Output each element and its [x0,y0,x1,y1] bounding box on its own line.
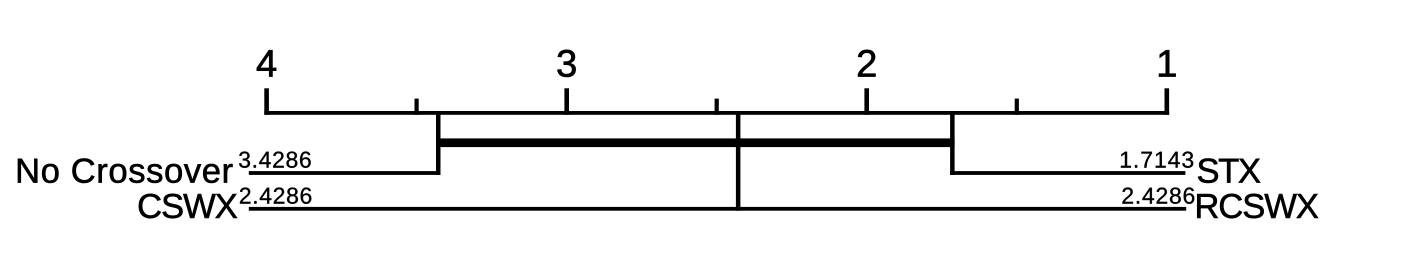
major tick rank 1 [1165,88,1170,115]
major tick rank 4 [264,88,269,115]
vertical drop No Crossover [436,111,441,175]
rank value 1.7143 [1121,152,1193,168]
minor tick rank 2.5 [715,99,719,115]
axis line [264,111,1169,115]
major tick rank 3 [564,88,569,115]
rank value 2.4286 right [1122,188,1194,204]
minor tick rank 3.5 [415,99,419,115]
STX line [950,171,1185,175]
major tick rank 2 [864,88,869,115]
axis label 4 [257,50,276,76]
CSWX and RCSWX line [249,207,1186,211]
vertical drop STX [950,111,955,175]
clique bar [436,138,955,147]
rank value 2.4286 left [240,188,311,204]
label No Crossover [18,158,233,183]
axis label 2 [858,50,875,77]
axis label 3 [557,50,575,77]
label CSWX [139,194,237,219]
No Crossover line [249,171,441,175]
rank value 3.4286 [239,152,311,168]
label RCSWX [1197,194,1318,219]
axis label 1 [1159,50,1176,76]
label STX [1198,158,1260,183]
minor tick rank 1.5 [1015,99,1019,115]
vertical drop CSWX/RCSWX [736,111,741,211]
